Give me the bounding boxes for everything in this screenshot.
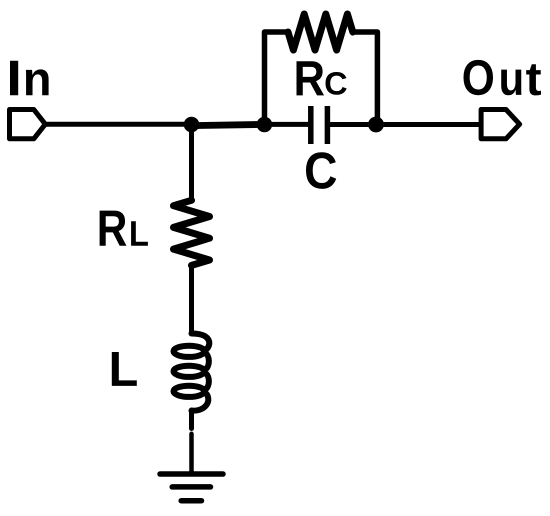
wire node A down to RL (189, 125, 194, 201)
ground bar 2 (172, 484, 210, 490)
wire left leg of RC loop (265, 32, 289, 125)
label RL part R (100, 211, 127, 246)
label C (306, 152, 336, 189)
wire RL to inductor L (189, 265, 194, 333)
node B (junction dot left of RC/C parallel pair) (257, 117, 273, 133)
port In (input terminal) (10, 110, 46, 139)
port Out (output terminal) (481, 110, 519, 139)
label RC part R (296, 61, 324, 95)
wire node A to node B (192, 124, 265, 125)
inductor L loop 1 (174, 346, 205, 357)
label L (112, 352, 137, 386)
node A (junction dot at RL branch) (184, 117, 200, 133)
label In (10, 61, 49, 96)
inductor L link loop2-loop3 (205, 373, 209, 391)
wire inductor to gap (189, 410, 194, 429)
capacitor C plates (311, 106, 328, 144)
label RC part C (326, 72, 347, 95)
wire In to node A (45, 122, 191, 127)
label Out (464, 60, 541, 96)
inductor L top hook (192, 334, 210, 351)
inductor L loop 2 (174, 366, 205, 377)
label RL part L (131, 221, 148, 245)
wire capacitor right plate to Out (330, 122, 481, 127)
wire node B to capacitor left plate (264, 122, 308, 127)
wire gap to ground (189, 434, 194, 472)
ground bar 3 (181, 498, 201, 504)
ground bar 1 (160, 471, 223, 477)
node C (junction dot right of RC/C parallel pair) (368, 117, 384, 133)
wire right leg of RC loop (353, 32, 378, 125)
inductor L bottom hook (192, 392, 209, 411)
resistor RL (zigzag) (174, 200, 210, 265)
inductor L link loop1-loop2 (205, 353, 209, 371)
resistor RC (zigzag) (288, 14, 353, 50)
inductor L loop 3 (174, 386, 205, 397)
